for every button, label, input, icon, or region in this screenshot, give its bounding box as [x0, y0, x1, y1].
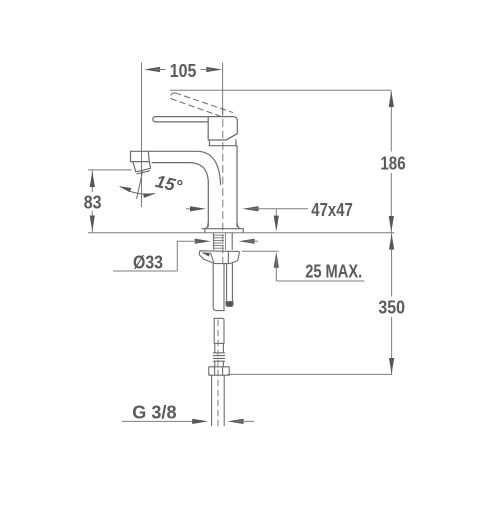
svg-text:186: 186	[380, 152, 405, 173]
aerator (tilted)	[133, 162, 151, 172]
svg-text:G 3/8: G 3/8	[132, 402, 176, 423]
hub chamfer diagonal	[226, 134, 237, 140]
handle hub / cartridge housing	[208, 117, 237, 140]
collar under hub	[209, 140, 236, 146]
deck / counter line	[88, 232, 394, 234]
svg-text:105: 105	[170, 61, 197, 81]
dimension 47x47 arrows	[186, 208, 199, 210]
spout tip box	[131, 151, 150, 161]
dimension 186 vertical line	[390, 91, 392, 152]
ridges	[213, 353, 224, 361]
dimension 25 MAX leader	[275, 209, 277, 227]
clamp horseshoe washer	[199, 251, 239, 264]
reference line top of 186 (from lever tip to dim)	[170, 89, 391, 91]
svg-text:Ø33: Ø33	[133, 252, 163, 272]
tailpipe upper tube	[214, 318, 224, 343]
dimension diameter 33 leader	[195, 239, 255, 244]
lower pipe	[212, 375, 225, 426]
clamp bottom reference line for 25 MAX	[242, 250, 279, 252]
dimension 105 arrows	[144, 67, 222, 72]
15 degree arc	[120, 187, 155, 195]
tube below clamp	[213, 264, 224, 311]
svg-text:15°: 15°	[154, 171, 185, 197]
rod with foot	[227, 264, 233, 302]
pipe centerline dashed	[217, 320, 219, 427]
base flare plate	[205, 223, 243, 233]
dimension 105 tails	[155, 69, 166, 71]
extension line left of 105 / vertical reference for 15 deg	[141, 63, 143, 208]
water stream line	[137, 172, 143, 199]
tailpipe mid section	[215, 343, 224, 352]
15 degree arc arrowheads	[120, 186, 156, 198]
nut	[209, 367, 229, 375]
spout underside curve	[152, 163, 208, 183]
svg-text:83: 83	[84, 191, 102, 212]
thread hatch marks	[214, 233, 225, 250]
centerline of body (dashed)	[222, 108, 224, 263]
svg-text:25 MAX.: 25 MAX.	[305, 261, 362, 281]
extension line right of 105 (solid above hub)	[222, 63, 224, 116]
reference line top of 83 (aerator level)	[88, 169, 132, 171]
spout top edge with sweep into column	[131, 151, 221, 184]
dimension G 3/8 line with arrows	[122, 420, 200, 422]
reference line bottom of 350 (G3/8 plane)	[228, 373, 393, 375]
lever handle raised (dashed outline)	[171, 93, 233, 117]
dimension 83 vertical line	[91, 170, 93, 192]
threaded shank	[214, 233, 233, 250]
handle lever (horizontal bar)	[153, 117, 208, 122]
dimension 350 vertical line	[391, 233, 393, 297]
svg-text:47x47: 47x47	[311, 200, 353, 220]
body column left edge (below spout curve)	[207, 181, 209, 227]
svg-text:350: 350	[378, 296, 405, 317]
body column right edge	[236, 146, 238, 227]
